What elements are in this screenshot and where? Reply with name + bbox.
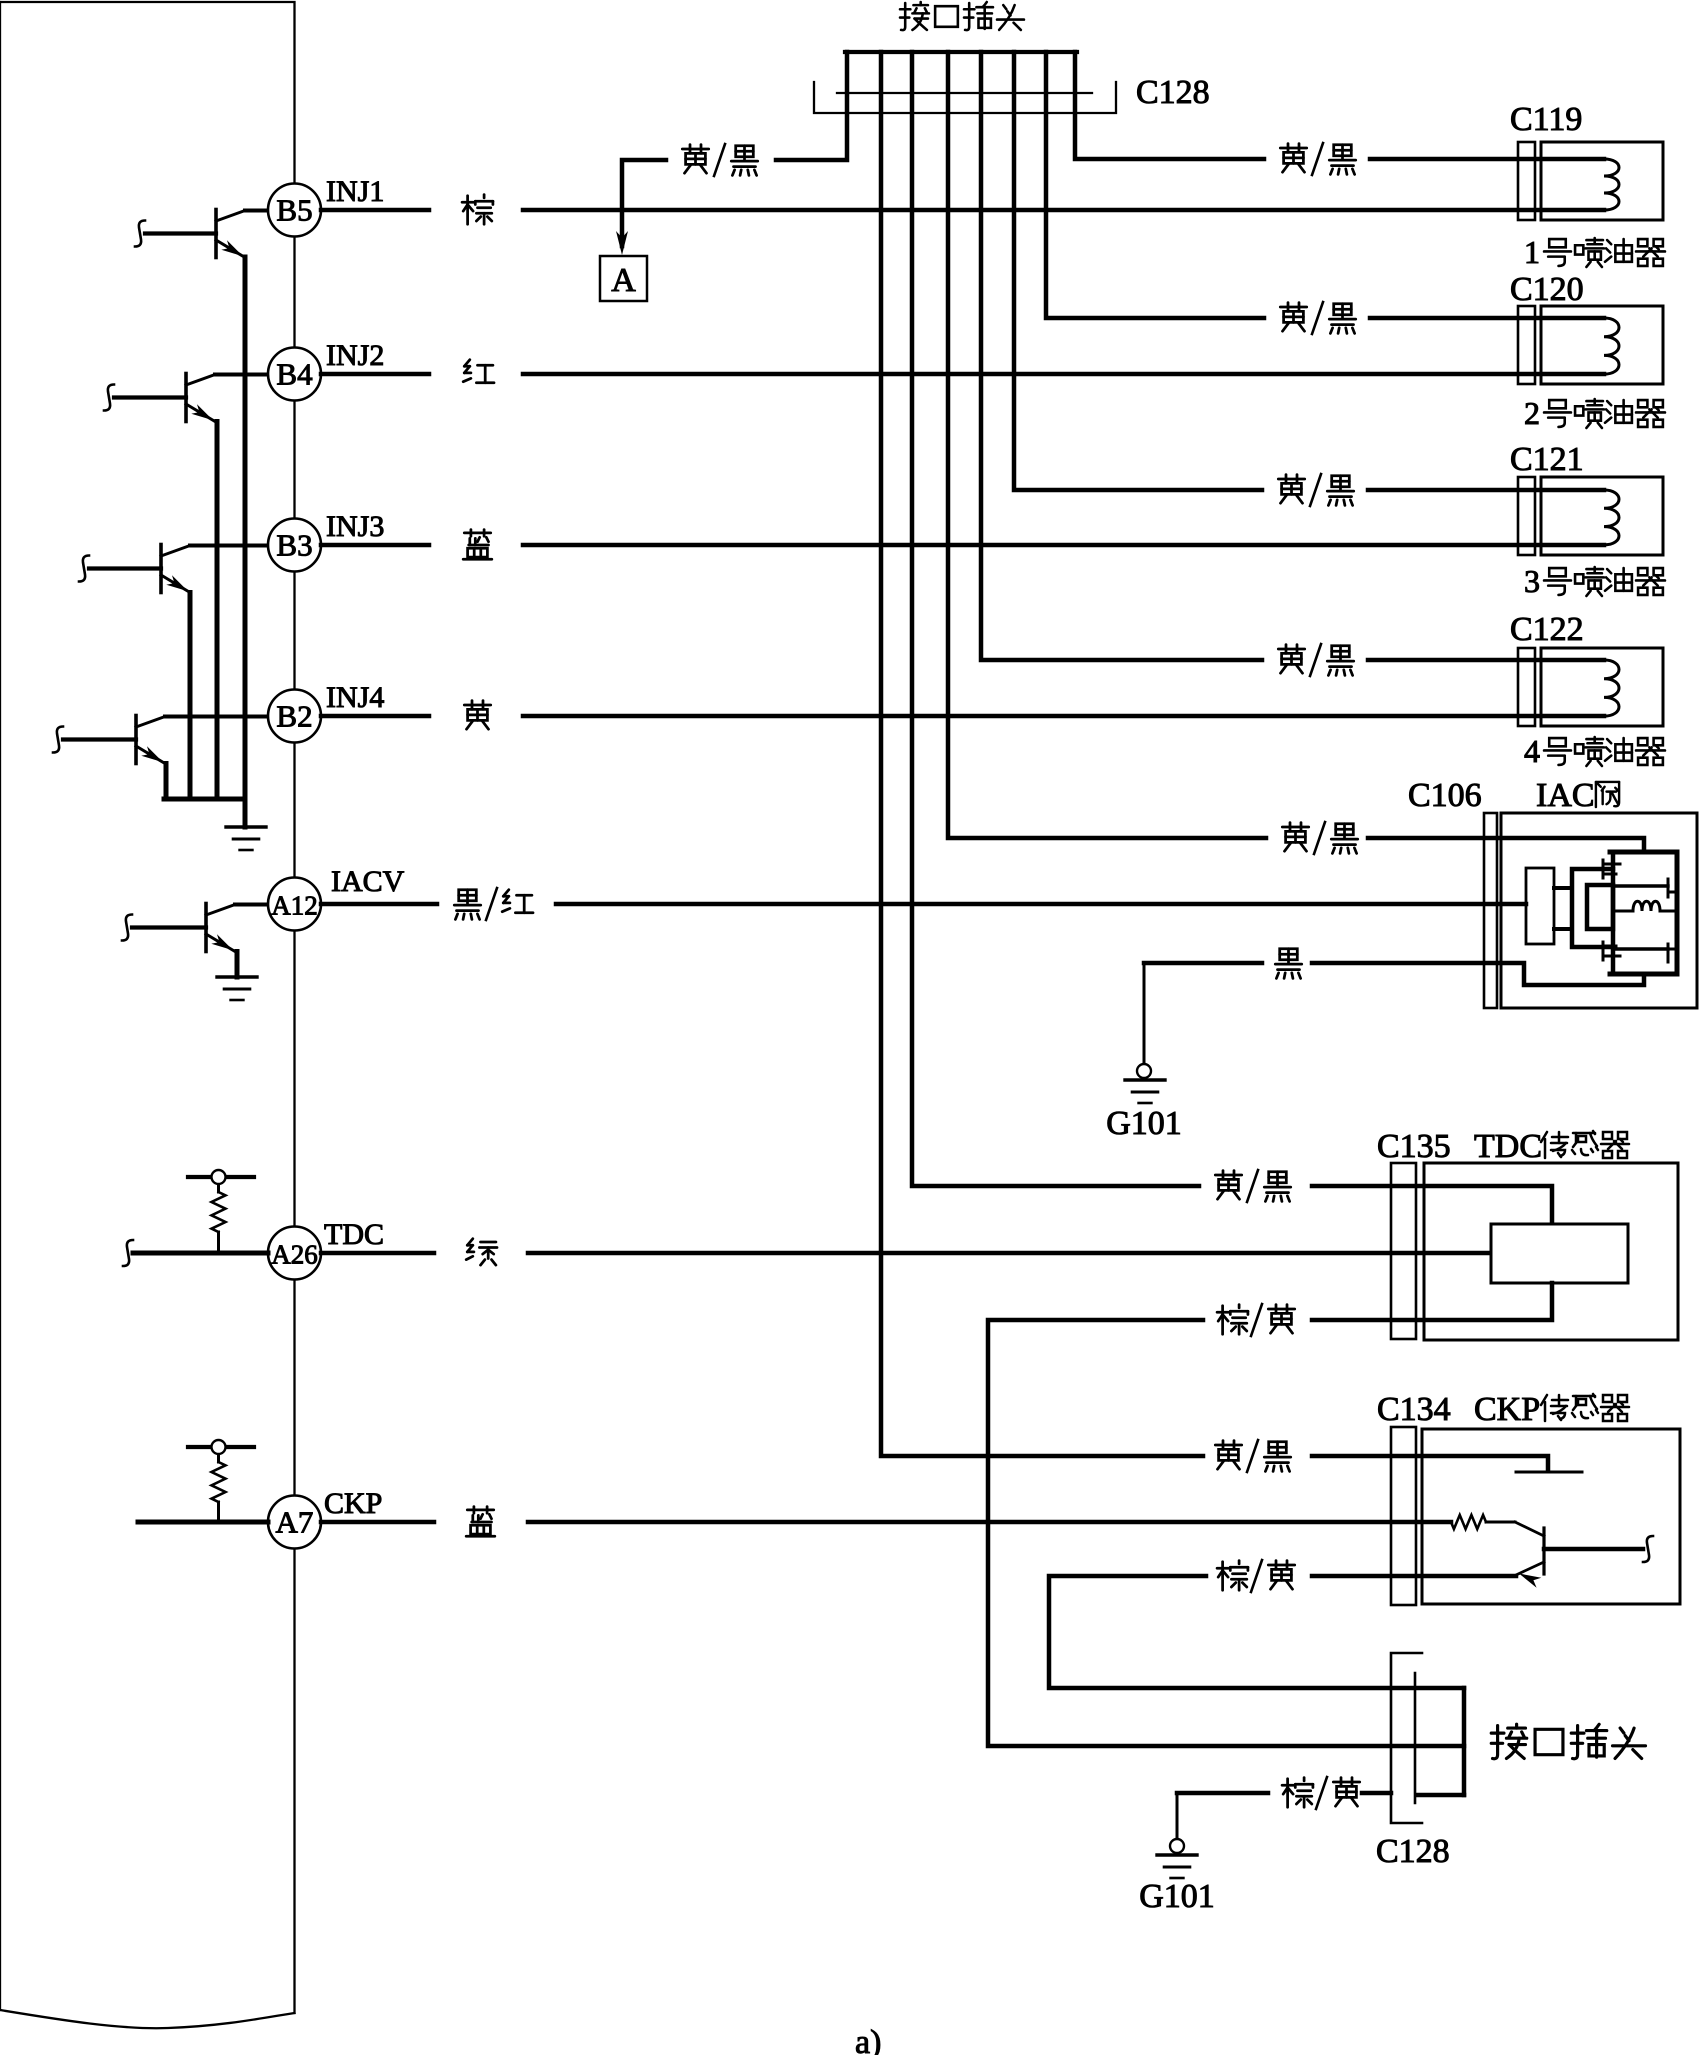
wire A26 left lead xyxy=(133,1251,268,1256)
IAC internal transistors xyxy=(1602,860,1605,878)
pull-up resistor (TDC) xyxy=(188,1175,254,1179)
wire Q2 emitter to ground bus xyxy=(215,422,220,800)
ground (IACV driver) xyxy=(217,975,257,978)
svg-text:B2: B2 xyxy=(276,699,312,734)
injector 4号喷油器 body xyxy=(1541,648,1663,726)
IAC internal stubs xyxy=(1554,886,1572,890)
transistor Q3 (INJ3 driver) xyxy=(159,545,163,593)
wire 棕/黄 (TDC return) xyxy=(1312,1283,1552,1320)
ground (injector drivers) xyxy=(243,799,248,827)
wire 绿 TDC (A26 to TDC sensor) xyxy=(321,1251,434,1256)
ECU pin A12 (IACV) xyxy=(268,878,321,931)
CKP internal transistor xyxy=(1542,1528,1545,1574)
wire 蓝 INJ3 (B3 to injector 3) xyxy=(321,543,429,548)
label 接口插头 (top) xyxy=(900,2,929,30)
wire 棕/黄 (CKP return) xyxy=(1312,1574,1516,1579)
connector C128 (top) comb bar xyxy=(845,50,1077,54)
wire 黄/黑 to IAC valve xyxy=(948,52,1266,838)
svg-text:B3: B3 xyxy=(276,528,312,563)
connector C128 (top) interface lines xyxy=(837,92,1092,94)
svg-text:INJ2: INJ2 xyxy=(326,339,384,372)
wire to G101 (middle) xyxy=(1143,963,1146,1064)
svg-text:C122: C122 xyxy=(1510,611,1584,648)
ECU pin B4 (INJ2) xyxy=(268,348,321,401)
injector coil C121 xyxy=(1604,490,1619,545)
svg-text:INJ3: INJ3 xyxy=(326,510,384,543)
injector connector bracket C119 xyxy=(1518,142,1535,220)
svg-text:C134: C134 xyxy=(1377,1391,1451,1428)
svg-text:A26: A26 xyxy=(271,1240,318,1270)
injector connector bracket C121 xyxy=(1518,477,1535,555)
svg-text:CKP: CKP xyxy=(1474,1391,1540,1428)
svg-text:B4: B4 xyxy=(276,357,313,392)
svg-text:1: 1 xyxy=(1524,234,1540,270)
transistor Q5 (IACV driver) xyxy=(204,904,208,952)
injector 1号喷油器 body xyxy=(1541,142,1663,220)
injector 3号喷油器 body xyxy=(1541,477,1663,555)
svg-text:C128: C128 xyxy=(1136,74,1210,111)
svg-text:IAC: IAC xyxy=(1536,777,1595,814)
wire emitter ground bus xyxy=(164,797,245,802)
wire 棕 INJ1 (B5 to injector 1) xyxy=(321,208,429,213)
wire 黑 (IAC ground) xyxy=(1144,961,1262,966)
svg-text:INJ4: INJ4 xyxy=(326,681,384,714)
wire Q3 emitter to ground bus xyxy=(188,593,193,800)
svg-text:A: A xyxy=(611,262,636,299)
svg-text:C120: C120 xyxy=(1510,271,1584,308)
svg-text:C106: C106 xyxy=(1408,777,1482,814)
wire 棕/黄 (to G101 bottom) xyxy=(1177,1791,1268,1796)
svg-text:TDC: TDC xyxy=(1474,1128,1542,1165)
ECU module outline (break-line box) xyxy=(2,2,295,2013)
wire 黄/黑 to injector C122 xyxy=(981,52,1262,660)
IAC valve body xyxy=(1501,813,1697,1008)
TDC sensor body xyxy=(1424,1163,1678,1340)
ground G101 (middle) xyxy=(1125,1078,1165,1081)
svg-text:G101: G101 xyxy=(1139,1878,1215,1915)
label 接口插头 (bottom) xyxy=(1491,1724,1526,1758)
wire 黄/黑 to injector C119 xyxy=(1075,52,1264,159)
ECU pin B2 (INJ4) xyxy=(268,690,321,743)
connector C128 (bottom) common bar xyxy=(1462,1688,1467,1795)
wire 黄 INJ4 (B2 to injector 4) xyxy=(321,714,429,719)
svg-text:INJ1: INJ1 xyxy=(326,175,384,208)
transistor Q4 (INJ4 driver) xyxy=(134,716,138,764)
svg-text:C119: C119 xyxy=(1510,101,1582,138)
svg-text:B5: B5 xyxy=(276,193,312,228)
wire 红 INJ2 (B4 to injector 2) xyxy=(321,372,429,377)
wire 黄/黑 to CKP sensor xyxy=(881,52,1203,1456)
svg-text:2: 2 xyxy=(1524,395,1540,431)
svg-text:G101: G101 xyxy=(1106,1105,1182,1142)
injector 2号喷油器 body xyxy=(1541,306,1663,384)
svg-text:C135: C135 xyxy=(1377,1128,1451,1165)
TDC pickup element xyxy=(1491,1224,1628,1283)
wire 黄/黑 to injector C120 xyxy=(1046,52,1264,318)
svg-text:TDC: TDC xyxy=(324,1218,384,1251)
wire Q1 emitter to ground bus xyxy=(243,257,248,799)
wire 黑/红 IACV (A12 to IAC valve) xyxy=(321,902,437,907)
ECU pin A26 (TDC) xyxy=(268,1227,321,1280)
wire Q4 emitter to ground bus xyxy=(164,764,169,800)
IAC valve connector bracket C106 xyxy=(1484,813,1497,1008)
svg-text:a): a) xyxy=(855,2024,881,2055)
svg-text:4: 4 xyxy=(1524,733,1540,769)
IAC coil L1 xyxy=(1613,901,1677,911)
IAC internal coil assembly xyxy=(1610,852,1677,974)
IAC internal motor rect xyxy=(1526,868,1554,944)
injector connector bracket C120 xyxy=(1518,306,1535,384)
svg-text:A12: A12 xyxy=(271,891,318,921)
svg-text:A7: A7 xyxy=(276,1505,314,1540)
connector C128 (bottom) bracket xyxy=(1391,1653,1422,1823)
injector coil C122 xyxy=(1604,660,1619,716)
ECU pin B3 (INJ3) xyxy=(268,519,321,572)
injector coil C119 xyxy=(1604,159,1619,210)
ECU pin A7 (CKP) xyxy=(268,1496,321,1549)
ECU pin B5 (INJ1) xyxy=(268,184,321,237)
svg-text:3: 3 xyxy=(1524,563,1540,599)
injector connector bracket C122 xyxy=(1518,648,1535,726)
svg-text:IACV: IACV xyxy=(331,865,405,898)
wire to G101 (bottom) xyxy=(1176,1793,1179,1839)
wire 黄/黑 to TDC sensor xyxy=(912,52,1199,1186)
injector coil C120 xyxy=(1604,318,1619,374)
wire 黄/黑 to injector C121 xyxy=(1014,52,1262,490)
pull-up resistor (CKP) xyxy=(188,1445,254,1449)
wire A7 left lead xyxy=(138,1520,268,1525)
transistor Q2 (INJ2 driver) xyxy=(184,374,188,422)
CKP internal resistor xyxy=(1451,1515,1486,1529)
connector A box xyxy=(600,256,647,301)
ground G101 (bottom) xyxy=(1157,1853,1197,1856)
transistor Q1 (INJ1 driver) xyxy=(214,210,218,258)
wire 黄/黑 branch A (to connector A) xyxy=(776,52,847,160)
CKP sensor connector bracket C134 xyxy=(1391,1427,1416,1605)
TDC sensor connector bracket C135 xyxy=(1391,1163,1416,1339)
IAC internal driver rect xyxy=(1572,869,1613,947)
CKP sensor body xyxy=(1422,1429,1680,1604)
CKP pickup bar xyxy=(1516,1471,1582,1474)
svg-text:CKP: CKP xyxy=(324,1487,382,1520)
svg-text:C121: C121 xyxy=(1510,441,1584,478)
wire 蓝 CKP (A7 to CKP sensor) xyxy=(321,1520,434,1525)
svg-text:C128: C128 xyxy=(1376,1833,1450,1870)
wire Q5 emitter to ground xyxy=(235,952,240,978)
